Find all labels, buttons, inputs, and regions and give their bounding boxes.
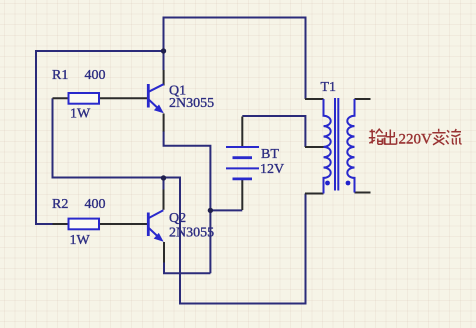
svg-text:R2: R2 bbox=[52, 197, 68, 212]
svg-text:Q2: Q2 bbox=[169, 211, 186, 226]
svg-text:400: 400 bbox=[85, 197, 106, 212]
svg-text:1W: 1W bbox=[70, 233, 91, 248]
svg-text:12V: 12V bbox=[260, 162, 284, 177]
svg-text:BT: BT bbox=[261, 147, 279, 162]
svg-text:2N3055: 2N3055 bbox=[169, 226, 214, 241]
svg-text:400: 400 bbox=[85, 68, 106, 83]
svg-text:220V: 220V bbox=[399, 131, 433, 147]
svg-text:2N3055: 2N3055 bbox=[169, 96, 214, 111]
svg-text:R1: R1 bbox=[52, 68, 68, 83]
svg-text:1W: 1W bbox=[70, 107, 91, 122]
svg-text:T1: T1 bbox=[321, 80, 337, 95]
